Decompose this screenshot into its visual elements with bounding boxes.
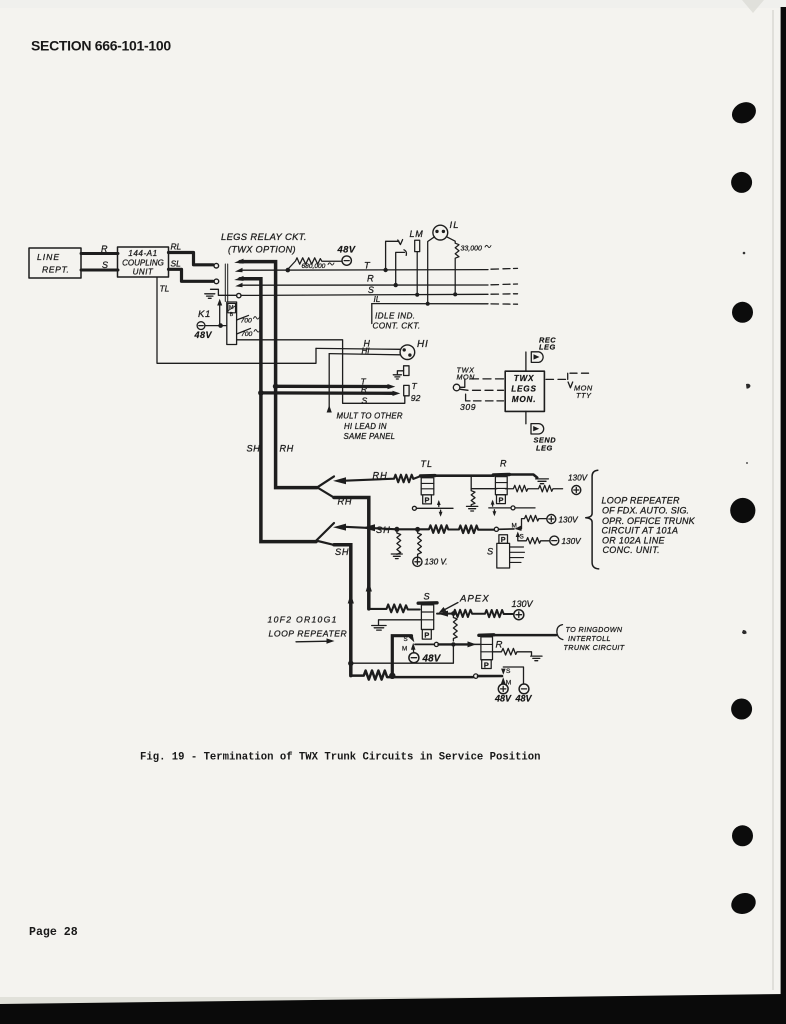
wire SH heavy vertical	[240, 279, 316, 542]
battery 48V for K1	[197, 322, 227, 330]
svg-text:Fig. 19 - Termination of TWX T: Fig. 19 - Termination of TWX Trunk Circu…	[140, 752, 541, 764]
wire relay to S jack feed	[237, 340, 405, 404]
svg-text:LINE: LINE	[37, 252, 60, 262]
wire SL thick	[169, 269, 214, 281]
wire LM to S	[416, 252, 418, 295]
arrow RH row	[333, 477, 346, 484]
top right smudge	[742, 0, 764, 13]
ground RH row end	[536, 479, 549, 484]
lamp LM rectangle	[415, 240, 420, 251]
binder hole 4	[730, 498, 755, 523]
battery -130V (S branch)	[550, 536, 559, 545]
box TWX LEGS MON	[505, 371, 544, 411]
wire IL lamp left lead	[428, 237, 435, 304]
junction dot SH row 2	[415, 527, 420, 532]
svg-text:K1: K1	[198, 309, 211, 320]
wire T line	[240, 269, 488, 272]
svg-text:S: S	[520, 534, 524, 541]
svg-text:RH: RH	[280, 444, 294, 454]
relay armature bars	[225, 264, 227, 302]
resistor to ground (mid)	[471, 489, 475, 506]
contact arrow SH make	[234, 276, 243, 281]
wire to M contact	[499, 528, 515, 530]
hook contact on T	[383, 240, 402, 273]
lamp IL	[433, 225, 448, 240]
wire RH row across jacks to ground	[435, 475, 537, 478]
dashes T line	[491, 267, 518, 270]
wire S line	[241, 294, 488, 295]
wire S/M contact feed heavy	[392, 636, 411, 676]
wire R line	[240, 284, 488, 286]
wire RH row with resistor	[342, 475, 420, 483]
svg-text:130V: 130V	[512, 599, 534, 609]
wire TL down from coupling unit	[157, 278, 316, 364]
TWX MON plug circle	[453, 384, 460, 391]
label LOOP REPEATER block	[602, 495, 696, 555]
jack R contact line	[489, 500, 535, 517]
svg-text:COUPLING: COUPLING	[122, 259, 164, 268]
svg-text:130 V.: 130 V.	[425, 558, 448, 567]
svg-text:MON.: MON.	[512, 395, 537, 404]
RH fork chevron	[317, 476, 334, 497]
binder hole 2	[731, 172, 752, 193]
binder hole 1	[728, 98, 759, 127]
battery +48V (bottom)	[498, 684, 508, 694]
wire rec leg	[525, 352, 527, 371]
svg-text:LEG: LEG	[539, 343, 556, 352]
svg-text:130V: 130V	[562, 537, 583, 546]
svg-text:S: S	[424, 592, 431, 602]
svg-text:TWX: TWX	[514, 374, 535, 383]
svg-text:700: 700	[241, 318, 253, 325]
wire mid thin circuit (R winding)	[471, 477, 497, 489]
svg-text:T: T	[412, 381, 418, 391]
svg-text:SH: SH	[335, 547, 349, 557]
svg-text:P: P	[425, 496, 430, 505]
wire return thin (R2 line to SH branch)	[352, 644, 454, 663]
dashes IL line	[491, 303, 518, 305]
svg-text:HI: HI	[362, 347, 371, 356]
svg-text:48V: 48V	[494, 694, 512, 704]
junction dot RH/T-jack	[273, 384, 279, 390]
junction dot (resistor/R2 line)	[451, 642, 455, 646]
wire SH row with resistors	[342, 525, 494, 533]
svg-text:92: 92	[411, 393, 421, 403]
svg-text:S: S	[487, 547, 494, 557]
svg-text:S: S	[506, 668, 511, 675]
svg-text:LEG: LEG	[536, 444, 553, 453]
wire R winding right to battery	[505, 485, 562, 492]
bracket ringdown	[557, 625, 563, 640]
svg-text:MULT TO OTHER: MULT TO OTHER	[337, 412, 403, 421]
wire HI mult lead down	[328, 354, 330, 412]
contact arrow RH make	[234, 259, 243, 264]
svg-text:700: 700	[241, 331, 253, 338]
wire RL thick	[169, 253, 214, 265]
junction dot SH row 1	[394, 527, 399, 532]
svg-text:MON: MON	[457, 373, 476, 382]
svg-text:R: R	[500, 459, 508, 469]
svg-text:P: P	[499, 495, 504, 504]
svg-text:IDLE IND.: IDLE IND.	[375, 312, 415, 321]
svg-text:M: M	[402, 646, 407, 653]
svg-text:R: R	[496, 640, 503, 651]
svg-text:M: M	[229, 305, 234, 311]
wire ringdown	[494, 634, 556, 637]
svg-text:CONC. UNIT.: CONC. UNIT.	[603, 545, 660, 555]
ground (SH row resistor)	[391, 554, 402, 559]
contact circle SL	[214, 279, 219, 284]
resistor hanging to battery (SH row)	[418, 531, 422, 559]
svg-text:CIRCUIT AT 101A: CIRCUIT AT 101A	[602, 526, 679, 536]
wire T heavy to jack	[277, 385, 389, 389]
wire R2 jack feed	[415, 641, 481, 647]
jack TL contact line	[412, 500, 453, 517]
battery 130V (RH row)	[572, 486, 581, 495]
svg-text:LM: LM	[410, 229, 424, 239]
scan speck 3	[742, 630, 747, 634]
bottom grey transition	[0, 997, 786, 1006]
svg-text:(TWX OPTION): (TWX OPTION)	[228, 245, 296, 255]
wire RH branch to S jack with resistor	[369, 605, 420, 613]
battery +130V (hanging)	[413, 557, 422, 566]
svg-text:APEX: APEX	[459, 594, 490, 605]
svg-text:TL: TL	[160, 284, 170, 294]
svg-text:TO RINGDOWN: TO RINGDOWN	[566, 625, 623, 634]
battery 130V APEX	[514, 610, 524, 620]
box 144-A1 COUPLING UNIT	[118, 247, 169, 277]
battery 48V top	[342, 256, 351, 265]
svg-text:SH: SH	[247, 444, 261, 454]
wire bottom heavy with resistor	[351, 671, 473, 680]
svg-text:INTERTOLL: INTERTOLL	[568, 634, 611, 643]
jack sleeve grounded	[393, 366, 409, 379]
binder hole 6	[732, 825, 753, 846]
svg-text:TTY: TTY	[576, 391, 592, 400]
relay contact 700ohm lower	[237, 328, 251, 334]
svg-text:LEGS: LEGS	[511, 385, 537, 394]
junction dot SH/R-jack	[258, 390, 264, 396]
binder hole 7	[728, 890, 758, 918]
arrow M contact (up)	[411, 643, 416, 650]
arrow (loop repeater callout)	[296, 638, 335, 643]
svg-text:680,000: 680,000	[302, 263, 326, 270]
idle ind bracket	[371, 304, 373, 324]
svg-text:P: P	[424, 631, 429, 640]
wire HI line	[329, 354, 400, 355]
jack 92	[404, 381, 421, 403]
contact arrow T	[235, 268, 243, 272]
svg-text:TRUNK CIRCUIT: TRUNK CIRCUIT	[564, 643, 625, 652]
wire IL lamp right lead + resistor 33000	[446, 237, 459, 293]
relay coil K1 box	[227, 302, 237, 345]
svg-text:REPT.: REPT.	[42, 265, 70, 275]
svg-text:IL: IL	[374, 295, 381, 304]
svg-text:R: R	[367, 273, 374, 284]
svg-text:S: S	[404, 636, 408, 643]
arrow SH row second	[362, 524, 375, 531]
lamp HI	[400, 345, 415, 360]
svg-text:IL: IL	[450, 219, 460, 230]
resistor vertical (APEX to R line)	[453, 616, 457, 642]
svg-text:S: S	[368, 285, 374, 295]
jack S APEX	[418, 592, 437, 640]
arrow up on SH branch	[348, 594, 354, 604]
rec leg jack symbol	[531, 352, 543, 363]
svg-text:130V: 130V	[559, 516, 580, 525]
ground under S APEX jack	[372, 620, 422, 630]
svg-text:130V: 130V	[568, 474, 589, 483]
wire R (LINE REPT to coupling unit)	[81, 252, 118, 255]
arrow S contact	[409, 635, 415, 642]
box LINE REPT.	[29, 248, 81, 278]
ground (R2)	[531, 656, 542, 661]
resistor 680,000	[288, 258, 342, 270]
right black scan strip	[781, 7, 786, 1024]
svg-text:48V: 48V	[515, 694, 533, 704]
wire send leg	[525, 411, 527, 423]
svg-text:UNIT: UNIT	[133, 268, 154, 277]
battery +130V (M branch)	[547, 515, 556, 524]
svg-text:SECTION 666-101-100: SECTION 666-101-100	[31, 38, 171, 54]
svg-text:B: B	[230, 312, 234, 318]
wire M branch up to 130V	[522, 515, 548, 528]
binder hole 5	[731, 699, 752, 720]
page edge shadow line	[772, 10, 774, 990]
dashed mon tty lead	[546, 373, 589, 379]
wire M to battery	[412, 650, 414, 653]
svg-text:S: S	[102, 260, 108, 270]
svg-text:OR 102A LINE: OR 102A LINE	[602, 535, 665, 545]
wire H line	[316, 347, 400, 350]
svg-text:SAME PANEL: SAME PANEL	[344, 432, 396, 441]
junction dot SH branch return	[348, 661, 353, 666]
arrow into S jack (APEX row)	[438, 611, 449, 617]
svg-text:LOOP REPEATER: LOOP REPEATER	[269, 629, 348, 639]
wire S branch to -48V	[503, 667, 523, 683]
junction dot APEX row	[451, 611, 456, 616]
svg-text:LEGS RELAY CKT.: LEGS RELAY CKT.	[221, 231, 307, 242]
svg-text:309: 309	[460, 402, 476, 412]
wire RH branch heavy down (to APEX)	[334, 498, 369, 609]
scan speck 1	[743, 252, 746, 255]
dashes R line	[491, 283, 518, 286]
dashes S line	[491, 293, 518, 295]
scan speck 4	[746, 462, 748, 464]
svg-text:R: R	[101, 244, 108, 254]
junction blob bottom	[389, 673, 395, 679]
svg-text:TL: TL	[421, 459, 434, 469]
arrow up on RH branch	[366, 582, 372, 592]
svg-text:RL: RL	[171, 242, 182, 252]
wire twx mon leads	[460, 379, 470, 401]
junction dot T/680k	[286, 268, 291, 273]
svg-text:P: P	[484, 660, 489, 669]
svg-text:R: R	[361, 384, 367, 394]
svg-text:S: S	[362, 395, 368, 405]
dashed leads to mon box	[471, 379, 504, 401]
contact arrow R	[235, 283, 242, 287]
contact circle S	[237, 293, 241, 297]
jack S (SH row)	[487, 535, 525, 568]
contact circle SH row	[494, 527, 498, 531]
svg-text:OPR. OFFICE TRUNK: OPR. OFFICE TRUNK	[602, 516, 696, 526]
svg-text:HI: HI	[417, 339, 429, 350]
resistor hanging to ground (SH row)	[397, 531, 401, 554]
wire bottom to S/M end	[478, 675, 502, 678]
ground at relay S contact	[205, 289, 237, 298]
wire RH heavy vertical	[240, 262, 317, 488]
battery -48V	[409, 653, 419, 663]
relay contact 700ohm upper	[237, 315, 249, 320]
svg-text:33,000: 33,000	[461, 246, 483, 253]
svg-text:LOOP REPEATER: LOOP REPEATER	[602, 495, 681, 505]
svg-text:HI LEAD IN: HI LEAD IN	[344, 422, 387, 431]
scan speck 2	[746, 384, 751, 389]
wire S	[81, 269, 118, 272]
svg-text:144-A1: 144-A1	[128, 249, 157, 258]
svg-text:SH: SH	[376, 525, 391, 535]
K1 operate arrow	[217, 299, 222, 326]
hook contact on R	[394, 250, 407, 287]
svg-text:OF FDX. AUTO. SIG.: OF FDX. AUTO. SIG.	[602, 506, 689, 516]
wire R heavy to jack	[262, 391, 394, 395]
resistor R2 right to ground	[493, 648, 532, 655]
svg-text:48V: 48V	[337, 244, 356, 255]
jack R	[493, 459, 509, 505]
brace loop repeater	[586, 470, 599, 569]
arrow mult (up)	[327, 405, 332, 413]
wire SH branch heavy down	[334, 545, 351, 676]
jack R2	[479, 635, 503, 670]
wire IL line	[372, 303, 488, 305]
arrow to mon tty	[568, 382, 573, 388]
SH fork chevron	[316, 523, 334, 545]
jack TL	[420, 459, 435, 505]
svg-text:Page 28: Page 28	[29, 926, 78, 939]
binder hole 3	[732, 302, 753, 323]
battery -48V (bottom)	[519, 684, 529, 694]
svg-text:CONT. CKT.: CONT. CKT.	[373, 322, 421, 331]
wire APEX row to 130V	[437, 610, 513, 617]
arrow SH row tip	[333, 524, 346, 531]
bottom black scan band	[0, 994, 786, 1024]
svg-text:10F2 OR10G1: 10F2 OR10G1	[268, 615, 338, 625]
contact circle RL	[214, 263, 219, 268]
wire S branch down to 130V	[518, 537, 550, 544]
label APEX with arrow	[439, 594, 490, 613]
svg-text:SL: SL	[171, 259, 182, 269]
svg-text:48V: 48V	[194, 330, 213, 340]
send leg jack symbol	[531, 424, 544, 434]
contact circle bottom	[474, 674, 478, 678]
